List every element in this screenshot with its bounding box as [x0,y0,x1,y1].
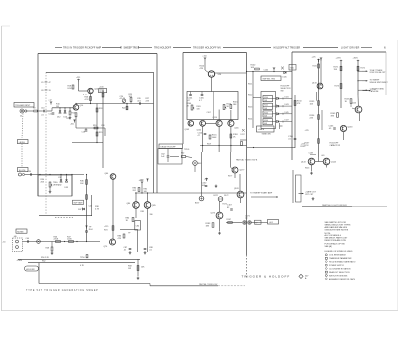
svg-text:READOUT SELECTION: READOUT SELECTION [329,271,350,274]
svg-text:R9: R9 [33,107,35,109]
svg-text:x: x [83,94,84,96]
svg-text:TRANSFER PARAMETER: TRANSFER PARAMETER [329,257,352,260]
svg-text:+225V: +225V [336,58,342,60]
svg-text:C44: C44 [89,206,92,208]
svg-text:AND EARLIER VALUES: AND EARLIER VALUES [325,226,348,229]
svg-text:PARTIAL TIMING SW B: PARTIAL TIMING SW B [236,159,258,162]
svg-text:T145: T145 [290,68,294,70]
svg-text:SINGLE SWP RESET: SINGLE SWP RESET [370,82,389,84]
svg-text:R16: R16 [72,113,75,115]
svg-text:TRIGGER & HOLDOFF: TRIGGER & HOLDOFF [242,275,291,279]
svg-text:R131: R131 [313,66,317,68]
svg-text:B167: B167 [195,203,199,205]
svg-text:+GATE: +GATE [258,128,265,131]
svg-text:R62: R62 [181,153,184,155]
svg-text:C18: C18 [101,125,104,127]
svg-text:D143: D143 [285,104,289,106]
svg-text:C40: C40 [26,238,29,240]
svg-text:D12: D12 [57,117,60,119]
svg-text:Q143: Q143 [301,162,306,164]
svg-text:HOLDOFF ALT TRIGGER: HOLDOFF ALT TRIGGER [274,46,301,49]
svg-text:8.2K: 8.2K [68,88,73,90]
svg-text:R28: R28 [99,108,102,110]
svg-text:R177: R177 [228,176,232,178]
svg-text:+350V: +350V [353,58,359,60]
svg-text:-150V: -150V [17,260,23,262]
svg-text:D32: D32 [58,185,61,187]
svg-text:TP28: TP28 [99,91,104,93]
svg-text:47: 47 [49,82,51,84]
svg-text:DELAY PICKOFF: DELAY PICKOFF [161,146,177,149]
svg-text:+225: +225 [305,130,309,132]
svg-text:B62: B62 [198,163,201,165]
svg-text:D33: D33 [65,187,68,189]
svg-text:CRT CKT: CRT CKT [305,194,314,196]
svg-text:-150: -150 [2,242,6,244]
svg-text:-150: -150 [70,124,74,126]
svg-text:R172: R172 [361,68,365,70]
svg-text:R143: R143 [305,168,309,170]
svg-text:TRIGGER INPUT: TRIGGER INPUT [15,105,31,107]
svg-text:C30: C30 [28,171,31,173]
svg-text:R144: R144 [248,119,252,121]
svg-text:+225: +225 [76,77,80,79]
svg-text:R50 2.2K: R50 2.2K [41,257,50,259]
svg-text:C8: C8 [41,90,43,92]
svg-text:J40: J40 [14,236,17,238]
svg-text:.001: .001 [321,155,325,157]
svg-text:4.7K: 4.7K [85,99,90,101]
svg-text:SEE MECH. PARTS LIST: SEE MECH. PARTS LIST [325,237,349,240]
svg-text:+12: +12 [48,100,51,102]
svg-text:SWP GATE: SWP GATE [74,202,84,205]
svg-text:LEGEND OF SYMBOLS USED: LEGEND OF SYMBOLS USED [325,251,353,253]
svg-text:R119: R119 [207,144,211,146]
svg-text:C18: C18 [82,132,85,134]
svg-text:+225: +225 [104,226,108,228]
svg-text:33: 33 [49,90,51,92]
svg-text:R141: R141 [248,84,252,86]
svg-text:SLOPE: SLOPE [19,170,26,172]
svg-text:D145: D145 [285,112,289,114]
svg-text:TRIG HOLDOFF: TRIG HOLDOFF [154,47,172,49]
svg-text:D37: D37 [78,209,81,211]
svg-text:LIGHT DRIVER: LIGHT DRIVER [341,47,360,49]
svg-text:100K: 100K [67,239,72,241]
svg-text:C9: C9 [41,82,43,84]
svg-text:330: 330 [150,214,153,216]
svg-text:C32: C32 [58,177,61,179]
svg-text:COIL RESISTANCE: COIL RESISTANCE [329,254,347,257]
svg-text:ASSEMBLY RESISTOR CAPS: ASSEMBLY RESISTOR CAPS [329,278,356,281]
svg-text:4.5-25: 4.5-25 [120,98,127,100]
svg-text:C10: C10 [41,107,44,109]
svg-text:RESISTORS ARE 1/2W: RESISTORS ARE 1/2W [325,239,346,242]
svg-text:+150: +150 [139,180,143,182]
svg-text:.01: .01 [41,115,44,117]
svg-text:K140: K140 [264,97,268,99]
svg-text:1W: 1W [128,268,131,270]
svg-text:R143: R143 [248,107,252,109]
svg-text:C107: C107 [207,112,211,114]
svg-text:Q173: Q173 [211,213,216,215]
svg-text:OBSOLETE SEE NOTES: OBSOLETE SEE NOTES [325,230,349,232]
svg-text:K146: K146 [264,120,268,122]
svg-text:1M: 1M [56,106,59,108]
svg-text:K142: K142 [264,105,268,107]
svg-text:C84: C84 [136,226,139,228]
svg-text:+150: +150 [202,56,206,58]
svg-text:100K: 100K [212,137,217,139]
svg-text:+225: +225 [312,57,316,59]
svg-text:R29: R29 [99,132,102,134]
svg-text:CAPACITOR: CAPACITOR [330,144,341,147]
svg-text:SW: SW [281,90,284,92]
svg-text:Q103: Q103 [185,129,190,131]
svg-text:C140: C140 [264,70,268,72]
svg-text:TIMING SW: TIMING SW [262,134,271,136]
svg-text:D145: D145 [283,77,287,79]
svg-text:R48: R48 [46,248,49,250]
svg-text:NORM: NORM [17,231,23,233]
svg-text:HOLDOFF: HOLDOFF [26,269,36,271]
svg-text:POWER SUPPLY: POWER SUPPLY [329,265,345,267]
svg-text:220K: 220K [54,239,59,241]
svg-text:Q183: Q183 [234,188,239,190]
svg-text:Q104: Q104 [197,129,202,131]
svg-text:B172: B172 [214,195,218,197]
svg-text:R173: R173 [335,86,339,88]
svg-text:K144: K144 [264,112,268,114]
svg-text:TO SWEEP START AMP: TO SWEEP START AMP [250,191,273,194]
svg-text:SWP SEL TRIG: SWP SEL TRIG [263,79,276,81]
svg-text:SYNC PULSE CRT: SYNC PULSE CRT [370,72,387,74]
svg-text:SWITCH POSITIONS: SWITCH POSITIONS [329,275,348,277]
svg-text:HOLD NORMAL STATE RATIO: HOLD NORMAL STATE RATIO [329,261,356,264]
svg-text:R19: R19 [93,125,96,127]
svg-text:CATHODE: CATHODE [370,90,380,93]
svg-text:TP105: TP105 [184,149,189,151]
svg-text:SWEEP TRIG: SWEEP TRIG [124,47,139,49]
svg-text:50: 50 [20,116,22,118]
svg-text:R142: R142 [248,95,252,97]
svg-text:SEE [A]: SEE [A] [325,245,332,248]
svg-text:TYPE 547 TRIGGER GENERATING SW: TYPE 547 TRIGGER GENERATING SWEEP [26,289,99,292]
svg-text:x: x [86,94,87,96]
svg-text:D117: D117 [241,134,245,136]
svg-text:C148: C148 [309,153,313,155]
svg-text:D172: D172 [224,195,228,197]
svg-text:C12: C12 [49,114,52,116]
svg-text:R52: R52 [42,261,45,263]
svg-text:TP50: TP50 [80,257,85,259]
svg-text:Q133: Q133 [312,83,317,85]
svg-text:Q114: Q114 [213,117,217,119]
svg-text:D147: D147 [285,120,289,122]
svg-text:D141: D141 [285,96,289,98]
svg-text:CLOCKWISE ROTATION: CLOCKWISE ROTATION [329,267,351,270]
svg-text:TRIG IN TRIGGER PICKOFF AMP: TRIG IN TRIGGER PICKOFF AMP [63,46,102,49]
svg-text:R74: R74 [104,230,107,232]
svg-text:R85: R85 [141,211,144,213]
svg-text:PARTIAL LIGHT DRIVER: PARTIAL LIGHT DRIVER [322,204,347,207]
svg-text:R167: R167 [227,219,231,221]
svg-text:Q153: Q153 [352,103,357,105]
svg-text:SEE PARTS LIST FOR: SEE PARTS LIST FOR [325,221,347,224]
svg-text:PARTIAL TIMING SW: PARTIAL TIMING SW [199,283,218,286]
svg-text:+GATE OUT: +GATE OUT [305,190,317,193]
svg-text:R22: R22 [122,108,125,110]
svg-text:TRIGGER HOLDOFF MV: TRIGGER HOLDOFF MV [193,47,221,49]
svg-text:FOR DETAILS OF SW: FOR DETAILS OF SW [325,243,345,246]
svg-text:4.7K: 4.7K [95,208,100,210]
svg-text:Q115: Q115 [234,128,238,130]
svg-text:LEVEL: LEVEL [19,142,26,144]
svg-text:ALL VOLTAGES &: ALL VOLTAGES & [325,234,342,237]
